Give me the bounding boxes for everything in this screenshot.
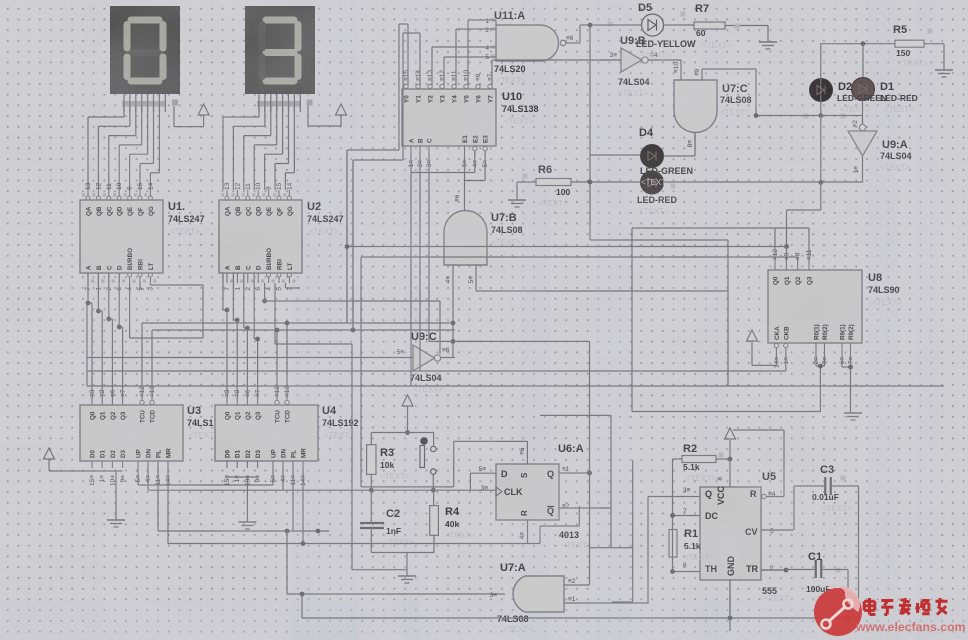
svg-text:www.elecfans.com: www.elecfans.com (855, 620, 966, 634)
